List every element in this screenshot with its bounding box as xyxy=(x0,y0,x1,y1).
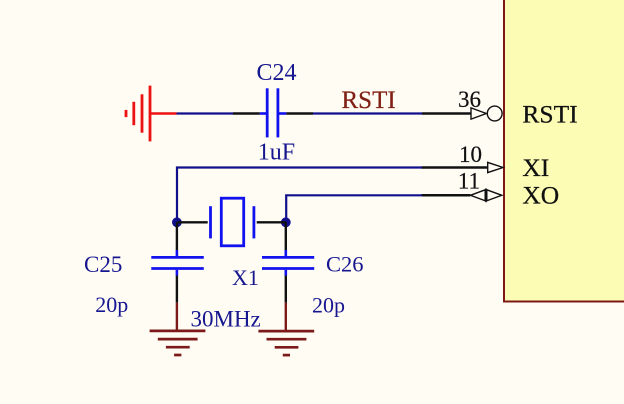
wire (navy, XI net: horizontal + drop to crystal left node) xyxy=(177,168,422,223)
svg-text:20p: 20p xyxy=(312,292,345,317)
capacitor C24 xyxy=(233,88,313,137)
svg-text:RSTI: RSTI xyxy=(522,100,577,129)
svg-text:20p: 20p xyxy=(95,292,128,317)
ground (right) xyxy=(258,331,314,355)
svg-text:X1: X1 xyxy=(232,265,259,290)
wire (black pin, left node down to C25) xyxy=(176,222,178,250)
ground (left) xyxy=(150,331,206,355)
crystal X1 xyxy=(177,198,286,246)
svg-text:11: 11 xyxy=(458,169,480,194)
power symbol PWR (red earth-style, pointing left) xyxy=(126,86,150,142)
svg-text:10: 10 xyxy=(459,142,482,167)
wire (maroon, C25 to ground) xyxy=(176,303,178,331)
pin 10 XI xyxy=(422,162,504,172)
wire (navy, power to C24) xyxy=(177,112,234,114)
node B (junction dot right of crystal) xyxy=(281,217,291,227)
svg-text:C25: C25 xyxy=(84,252,122,277)
capacitor C26 xyxy=(262,250,314,303)
svg-text:30MHz: 30MHz xyxy=(191,307,261,332)
capacitor C25 xyxy=(151,250,204,303)
wire (black pin, right node down to C26) xyxy=(285,222,287,250)
svg-text:RSTI: RSTI xyxy=(342,87,396,114)
svg-text:C24: C24 xyxy=(257,60,297,86)
wire (navy, C24 to pin 36) xyxy=(313,112,422,114)
svg-text:C26: C26 xyxy=(326,252,364,277)
pin 36 RSTI (IC pin with inversion bubble) xyxy=(422,106,502,121)
node A (junction dot left of crystal) xyxy=(172,217,182,227)
wire (navy, XO net: horizontal + drop to crystal right node) xyxy=(286,195,422,222)
IC U1 body (partially visible) xyxy=(504,0,624,302)
pin 11 XO (bidirectional) xyxy=(422,188,502,202)
wire (red from power symbol) xyxy=(150,112,177,115)
svg-text:36: 36 xyxy=(458,87,481,112)
svg-text:1uF: 1uF xyxy=(258,139,295,165)
svg-text:XO: XO xyxy=(522,181,559,210)
svg-text:XI: XI xyxy=(522,153,549,182)
wire (maroon, C26 to ground) xyxy=(285,303,287,331)
